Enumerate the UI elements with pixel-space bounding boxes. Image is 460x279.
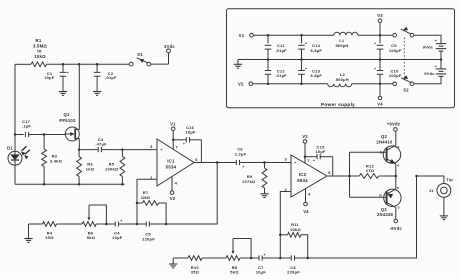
wire Q2 base: [350, 151, 387, 153]
ground at R10: [172, 258, 174, 264]
svg-text:+: +: [264, 253, 266, 257]
switch S2 upper pole: [393, 33, 397, 37]
node R8 wiper junction: [250, 257, 253, 260]
resistor R10: [188, 256, 202, 261]
svg-text:+: +: [374, 67, 376, 71]
svg-text:10µF: 10µF: [256, 270, 267, 275]
svg-text:10µF: 10µF: [44, 75, 55, 80]
wire IC1 pin 2 to feedback column: [137, 179, 157, 224]
op-amp IC1 5534: [157, 139, 194, 186]
wire ground to R4: [29, 223, 43, 225]
svg-text:100kΩ: 100kΩ: [105, 167, 119, 172]
capacitor C14: [301, 35, 303, 43]
capacitor C8: [280, 257, 291, 259]
svg-text:D1: D1: [7, 145, 13, 150]
node C10 bottom: [379, 83, 382, 86]
wire C17 line from left vertical: [15, 134, 24, 136]
node C13 bottom: [300, 83, 303, 86]
resistor R7: [137, 202, 143, 204]
svg-text:V2: V2: [170, 196, 176, 201]
wire R8 to C7: [240, 257, 259, 259]
ground under R9: [260, 193, 268, 195]
capacitor C6: [235, 160, 237, 165]
node C9 bottom: [379, 58, 382, 61]
resistor R11: [280, 234, 287, 236]
svg-text:J1: J1: [429, 188, 434, 193]
svg-text:.47µF: .47µF: [95, 142, 107, 147]
node C5 left: [136, 223, 139, 226]
svg-text:220pF: 220pF: [142, 236, 155, 241]
capacitor C13: [301, 60, 303, 71]
battery B2 9Vdc: [440, 60, 442, 69]
svg-text:100µF: 100µF: [389, 73, 402, 78]
svg-text:10µF: 10µF: [315, 149, 326, 154]
node IC1 output feedback junction: [216, 161, 219, 164]
svg-text:10kΩ: 10kΩ: [34, 54, 46, 59]
capacitor C4: [114, 221, 116, 226]
svg-text:S2: S2: [403, 88, 409, 93]
wire S2 lower to V2 rail: [352, 83, 393, 85]
svg-text:Tip: Tip: [446, 177, 453, 182]
ground under jack: [440, 215, 448, 217]
svg-text:e: e: [397, 164, 399, 168]
svg-text:2N4248: 2N4248: [377, 212, 394, 217]
node C1 junction: [62, 63, 65, 66]
node Q1 drain junction: [78, 63, 81, 66]
IC1 output wire pin 6: [194, 162, 236, 164]
svg-text:+: +: [374, 42, 376, 46]
node battery center tap: [440, 58, 443, 61]
wire S1 to 3Vdc terminal: [151, 63, 169, 65]
bottom rail of input stage: [15, 183, 125, 185]
terminal V4 below IC2: [304, 202, 308, 206]
svg-text:V3: V3: [377, 13, 383, 18]
terminal V4 power: [378, 96, 382, 100]
node R9 top: [263, 161, 266, 164]
switch S2 lower pole: [393, 82, 397, 86]
wire R4 to R6: [57, 223, 83, 225]
terminal -9Vdc: [394, 219, 398, 223]
svg-text:V4: V4: [377, 101, 383, 106]
transistor Q1 PF5102: [65, 127, 79, 141]
svg-text:27Ω: 27Ω: [366, 168, 375, 173]
wire battery B1 to mid rail: [440, 51, 442, 59]
svg-text:IC1: IC1: [167, 158, 175, 163]
resistor R9: [264, 163, 266, 169]
svg-text:10µF: 10µF: [112, 235, 123, 240]
node R5 top junction: [121, 148, 124, 151]
pin 4 lead: [305, 189, 307, 203]
wire V4 stub: [379, 84, 381, 96]
svg-text:+: +: [313, 159, 315, 163]
terminal V1 above IC1: [171, 127, 175, 131]
svg-text:-9Vdc: -9Vdc: [389, 226, 402, 231]
svg-text:3Vdc: 3Vdc: [164, 44, 175, 49]
svg-text:e: e: [397, 186, 399, 190]
svg-text:9Vdc: 9Vdc: [423, 45, 434, 50]
capacitor C9: [379, 35, 381, 43]
svg-text:V4: V4: [303, 209, 309, 214]
node C11 top: [267, 34, 270, 37]
svg-text:3.4kΩ: 3.4kΩ: [50, 158, 63, 163]
wire top rail left corner to R1: [15, 63, 31, 65]
wire Q2 collector to +9Vdc: [395, 131, 397, 145]
node R2 top junction: [43, 133, 46, 136]
svg-text:+: +: [160, 148, 162, 152]
svg-text:Q1: Q1: [63, 112, 70, 117]
capacitor C7: [258, 255, 260, 260]
light arrow 2 into D1: [25, 150, 30, 155]
inductor L2: [328, 84, 352, 87]
node C8 left: [279, 257, 282, 260]
svg-text:2N4410: 2N4410: [376, 140, 393, 145]
capacitor C1: [62, 64, 64, 72]
svg-text:100µF: 100µF: [389, 48, 402, 53]
switch S2 gang dashed link: [403, 38, 405, 81]
svg-text:to: to: [37, 49, 42, 54]
svg-text:560µH: 560µH: [336, 77, 349, 82]
capacitor C17: [24, 132, 26, 137]
svg-text:+: +: [294, 161, 296, 165]
svg-text:5534: 5534: [166, 165, 177, 170]
svg-text:R1: R1: [36, 38, 42, 43]
wire feedback to IC1 output: [166, 163, 217, 225]
terminal 3Vdc: [167, 49, 171, 53]
svg-text:+: +: [183, 142, 185, 146]
wire Q3 base: [350, 196, 387, 198]
svg-text:6.8µF: 6.8µF: [311, 73, 323, 78]
svg-text:IC2: IC2: [299, 172, 307, 177]
node R5 bottom: [121, 183, 124, 186]
capacitor C12: [267, 60, 269, 71]
wire output to jack: [417, 176, 444, 184]
capacitor C5: [137, 223, 146, 225]
ground at R4: [28, 224, 30, 238]
wire Q3 collector to -9Vdc: [395, 208, 397, 220]
wire left vertical C17 node to D1: [14, 135, 16, 152]
capacitor C11: [267, 35, 269, 43]
svg-text:5534: 5534: [297, 178, 308, 183]
wire C3 to IC1 pin 3: [102, 149, 158, 151]
svg-text:.01µF: .01µF: [105, 75, 117, 80]
terminal V3 power: [378, 19, 382, 23]
mid ground rail: [238, 59, 441, 61]
node left vertical C17 junction: [14, 133, 17, 136]
wire D1 to bottom rail: [14, 165, 16, 184]
svg-text:+9Vdc: +9Vdc: [387, 122, 401, 127]
wire C6 to IC2 pin 3: [240, 162, 291, 164]
resistor R5: [121, 150, 123, 157]
capacitor C10: [379, 60, 381, 71]
svg-text:V2: V2: [238, 81, 244, 86]
ground under C1: [59, 91, 67, 93]
svg-text:V1: V1: [239, 33, 245, 38]
capacitor C15: [305, 156, 317, 158]
svg-text:.01µF: .01µF: [275, 48, 287, 53]
wire feedback to output line: [308, 176, 417, 258]
svg-text:V1: V1: [170, 121, 176, 126]
node C14 top: [300, 34, 303, 37]
svg-text:Q2: Q2: [381, 134, 388, 139]
svg-text:35Ω: 35Ω: [191, 270, 200, 275]
svg-text:107kΩ: 107kΩ: [242, 179, 256, 184]
resistor R12: [350, 175, 360, 177]
wire R10 to R8: [202, 257, 226, 259]
wire Q1 source to C3: [79, 149, 98, 151]
node C14 bottom: [300, 58, 303, 61]
svg-text:.1µF: .1µF: [22, 123, 31, 128]
terminal V3 above IC2: [303, 140, 307, 144]
svg-text:3.5MΩ: 3.5MΩ: [33, 43, 48, 48]
svg-text:+: +: [305, 42, 307, 46]
svg-text:1kΩ: 1kΩ: [86, 167, 95, 172]
node C2 junction: [96, 63, 99, 66]
wire S2 to battery top: [414, 35, 441, 43]
svg-text:5kΩ: 5kΩ: [87, 235, 96, 240]
node R3 bottom: [78, 183, 81, 186]
svg-text:PF5102: PF5102: [59, 118, 76, 123]
node V3 C9 junction: [379, 34, 382, 37]
wire IC2 pin 2: [280, 192, 291, 259]
ground under C2: [93, 91, 101, 93]
ground stem power: [237, 60, 239, 65]
resistor R1: [31, 62, 47, 67]
wire C4 to C5 node: [119, 223, 137, 225]
wire battery B2 to S2 lower: [414, 76, 441, 83]
svg-text:+: +: [120, 219, 122, 223]
IC2 output wire pin 6: [327, 175, 359, 177]
wire Q2 emitter to output line: [395, 164, 397, 176]
svg-text:10µF: 10µF: [185, 130, 196, 135]
resistor R3: [78, 150, 80, 157]
pin 7 lead and node: [172, 131, 174, 150]
svg-text:560µH: 560µH: [335, 43, 348, 48]
node output line bases junction: [348, 175, 351, 178]
node output to jack junction: [415, 175, 418, 178]
wire L1 to S2: [358, 34, 393, 36]
resistor R4: [43, 222, 57, 227]
wire V3 stub: [379, 23, 381, 36]
potentiometer R8: [226, 256, 240, 261]
wire R2 node to Q1 gate: [44, 134, 65, 136]
svg-text:b: b: [380, 150, 383, 154]
node C12 bottom: [267, 83, 270, 86]
power supply box: [227, 9, 455, 108]
wire C17 to R2 node: [29, 134, 44, 136]
pin 7 lead and node: [304, 143, 306, 163]
node R6 wiper junction: [105, 223, 108, 226]
resistor R2: [43, 135, 45, 150]
svg-text:10kΩ: 10kΩ: [290, 227, 301, 232]
svg-text:1MΩ: 1MΩ: [141, 195, 151, 200]
node C8 right: [306, 257, 309, 260]
node R2 bottom: [43, 183, 46, 186]
svg-text:+: +: [242, 165, 244, 169]
node C11 bottom: [267, 58, 270, 61]
photodiode D1: [8, 151, 22, 165]
svg-text:V3: V3: [302, 134, 308, 139]
node C5 right: [165, 223, 168, 226]
wire L2 to V2: [253, 83, 328, 85]
switch S1: [129, 62, 133, 66]
svg-text:b: b: [379, 193, 382, 197]
jack J1: [437, 184, 451, 198]
node emitters junction: [395, 175, 398, 178]
svg-text:c: c: [398, 206, 400, 210]
svg-text:.01µF: .01µF: [275, 73, 287, 78]
node R11 left: [279, 234, 282, 237]
svg-text:1.2µF: 1.2µF: [235, 151, 247, 156]
wire left vertical from top rail to C17 node: [14, 64, 16, 134]
transistor Q2 2N4410: [383, 146, 400, 163]
op-amp IC2 5534: [291, 155, 327, 197]
svg-text:S1: S1: [137, 52, 143, 57]
svg-text:6.8µF: 6.8µF: [311, 48, 323, 53]
ground power supply: [234, 63, 242, 65]
node R7 left: [136, 202, 139, 205]
wire R6 to C4: [96, 223, 115, 225]
battery B1 9Vdc: [436, 43, 446, 45]
node Q1 source junction: [78, 148, 81, 151]
terminal +9Vdc: [394, 128, 398, 132]
pin 4 lead: [171, 177, 173, 191]
capacitor C16: [173, 139, 186, 141]
wire ground to R10: [173, 257, 188, 259]
capacitor C2: [96, 64, 98, 72]
inductor L1: [334, 32, 358, 35]
potentiometer R6: [82, 222, 96, 227]
wire jack to ground: [443, 197, 445, 215]
terminal V2 below IC1: [170, 191, 174, 195]
svg-text:9Vdc: 9Vdc: [424, 71, 435, 76]
capacitor C3: [97, 147, 99, 152]
svg-text:c: c: [397, 145, 399, 149]
svg-text:220pF: 220pF: [287, 270, 300, 275]
svg-text:+: +: [305, 67, 307, 71]
wire V1 rail: [253, 34, 334, 36]
light arrow 1 into D1: [22, 146, 27, 151]
svg-text:35Ω: 35Ω: [45, 235, 54, 240]
wire C7 to C8 node: [262, 257, 280, 259]
wire R1 to S1: [47, 63, 130, 65]
svg-text:5kΩ: 5kΩ: [230, 270, 239, 275]
transistor Q3 2N4248: [384, 189, 401, 206]
wire Q3 emitter to output line: [395, 176, 397, 189]
svg-text:Power supply: Power supply: [321, 102, 355, 108]
wire bases vertical: [349, 152, 351, 197]
